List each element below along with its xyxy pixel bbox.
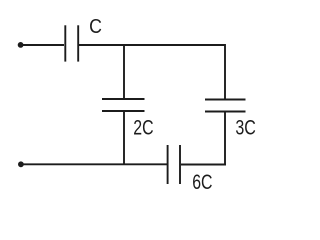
svg-text:3C: 3C <box>235 117 256 140</box>
svg-text:C: C <box>89 15 102 38</box>
svg-text:2C: 2C <box>133 116 153 139</box>
svg-text:6C: 6C <box>192 171 212 194</box>
